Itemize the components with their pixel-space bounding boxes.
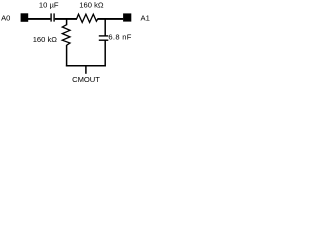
svg-text:160 kΩ: 160 kΩ [33, 35, 58, 44]
svg-text:CMOUT: CMOUT [72, 75, 100, 84]
wire C2 bottom lead [104, 40, 106, 66]
svg-text:A0: A0 [1, 13, 10, 22]
capacitor C1 10uF left plate [50, 13, 52, 21]
capacitor C2 6.8nF top plate [99, 35, 109, 37]
svg-text:10 µF: 10 µF [39, 1, 59, 10]
capacitor C1 10uF right plate [53, 13, 55, 21]
terminal pad A1 [123, 13, 131, 21]
resistor R1 160k horizontal [77, 14, 98, 22]
terminal pad A0 [21, 13, 29, 21]
svg-text:A1: A1 [141, 13, 150, 22]
wire junction to C2 [104, 19, 106, 36]
resistor R2 160k vertical [62, 25, 70, 46]
wire R1 to pad A1 [98, 18, 124, 20]
wire C1 to R1 [55, 18, 77, 20]
wire pad A0 to C1 [28, 18, 50, 20]
wire bottom [66, 65, 106, 67]
wire junction to R2 [66, 19, 68, 25]
svg-text:6.8 nF: 6.8 nF [108, 33, 131, 42]
svg-text:160 kΩ: 160 kΩ [79, 1, 104, 10]
capacitor C2 6.8nF bottom plate [99, 39, 109, 41]
wire CMOUT stub [85, 66, 87, 74]
wire R2 bottom lead [66, 45, 68, 67]
